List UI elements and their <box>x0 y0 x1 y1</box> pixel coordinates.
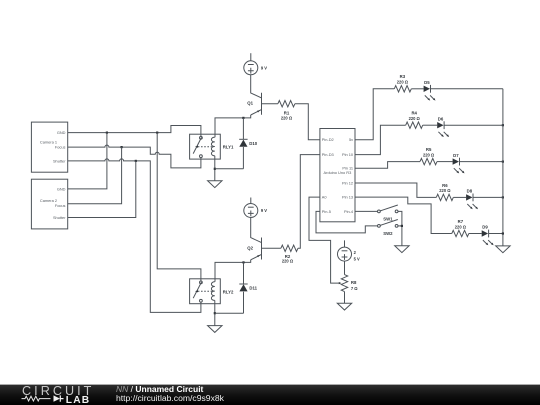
diode D10 <box>239 118 258 169</box>
relay RLY2 <box>190 279 234 304</box>
wire V2 top stub <box>344 240 346 247</box>
resistor R6 <box>436 183 453 201</box>
svg-text:9 V: 9 V <box>261 66 267 71</box>
node SW2/ground vertical <box>401 225 403 227</box>
voltage source V2 5V <box>338 247 361 261</box>
wire RLY1 coil bottom to ground <box>214 156 216 181</box>
svg-text:D5: D5 <box>424 80 430 85</box>
svg-text:D8: D8 <box>467 189 473 194</box>
camera 1 box <box>31 122 67 172</box>
logo diode <box>54 395 61 401</box>
voltage source V3 9V <box>244 204 268 218</box>
svg-text:Pin 12: Pin 12 <box>342 180 353 185</box>
wire LED bus <box>502 89 504 246</box>
wire GND net down to RLY2 switch top <box>157 133 201 281</box>
switch SW1 <box>378 205 399 221</box>
svg-text:http://circuitlab.com/c9s9x8k: http://circuitlab.com/c9s9x8k <box>116 393 225 403</box>
wire D9 to LED bus <box>489 233 503 235</box>
node Q2 emitter/D11 junction <box>242 261 244 263</box>
svg-text:GND: GND <box>57 186 66 191</box>
wire D8 to LED bus <box>473 196 503 198</box>
wire V2 to R8 <box>344 261 346 275</box>
transistor Q2 <box>247 238 261 260</box>
wire D7 to LED bus <box>460 161 503 163</box>
wire Pin 11 to R5 <box>355 162 420 169</box>
svg-text:220 Ω: 220 Ω <box>281 116 293 121</box>
LED D8 <box>466 189 478 210</box>
svg-text:220 Ω: 220 Ω <box>423 152 435 157</box>
svg-text:220 Ω: 220 Ω <box>397 80 409 85</box>
svg-text:R7: R7 <box>458 219 464 224</box>
wire SW2 right terminal to vertical <box>398 225 402 227</box>
wire R7 to D9 <box>469 233 482 235</box>
relay RLY1 <box>190 134 234 159</box>
svg-text:R8: R8 <box>351 280 357 285</box>
svg-text:Arduino Uno R3: Arduino Uno R3 <box>324 170 352 175</box>
wire V3 to Q2 collector <box>251 218 262 243</box>
wire camera1 Shutter to RLY2 switch bottom (with hops) <box>68 159 201 313</box>
svg-text:SW2: SW2 <box>383 231 393 236</box>
wire A0 to R8 wiper <box>309 197 339 283</box>
switch SW2 <box>378 220 399 236</box>
svg-text:5 V: 5 V <box>354 256 360 261</box>
wire V1 to Q1 collector <box>251 75 262 98</box>
svg-text:Pin 13: Pin 13 <box>342 195 353 200</box>
wire SW1 right terminal down to ground <box>398 211 402 245</box>
resistor R5 <box>420 147 437 165</box>
wire Pin-5 to SW2 <box>316 211 378 233</box>
potentiometer R8 <box>341 275 358 292</box>
svg-text:A0: A0 <box>322 195 328 200</box>
svg-text:5v: 5v <box>349 137 353 142</box>
wire R4 to D6 <box>423 124 438 126</box>
wire V1 top stub <box>250 53 252 61</box>
svg-text:Pin 10: Pin 10 <box>342 152 354 157</box>
svg-text:Q1: Q1 <box>247 101 253 106</box>
svg-text:R6: R6 <box>442 183 448 188</box>
svg-text:Pin-D3: Pin-D3 <box>322 152 334 157</box>
node bus/D8 <box>502 196 504 198</box>
node junction Shutter/camera2 <box>135 160 137 162</box>
node RLY1 coil/D10 junction <box>214 168 216 170</box>
ground under LED bus <box>496 246 510 253</box>
resistor R4 <box>406 111 423 129</box>
svg-text:Focus: Focus <box>55 203 66 208</box>
svg-text:Pin-5: Pin-5 <box>322 209 331 214</box>
wire Pin 13 to R7 <box>355 197 452 233</box>
svg-text:D7: D7 <box>453 153 459 158</box>
footer bar <box>0 385 540 405</box>
wire D5 to LED bus <box>431 88 503 90</box>
resistor R7 <box>452 219 469 237</box>
svg-text:D11: D11 <box>249 286 257 291</box>
svg-text:D6: D6 <box>438 116 444 121</box>
wire Pin 10 to R4 <box>355 125 406 154</box>
svg-text:220 Ω: 220 Ω <box>282 259 294 264</box>
logo resistor zigzag <box>22 396 51 401</box>
svg-text:D10: D10 <box>249 141 257 146</box>
transistor Q1 <box>247 93 261 115</box>
LED D6 <box>437 116 449 137</box>
svg-text:9 V: 9 V <box>261 208 267 213</box>
wire R6 to D8 <box>453 196 466 198</box>
wire R5 to D7 <box>437 161 453 163</box>
LED D5 <box>424 80 436 101</box>
wiper arrowhead <box>339 282 342 284</box>
wire Q1 base to R1 <box>262 103 278 105</box>
wire camera2 GND up to GND net <box>68 133 107 189</box>
resistor R2 <box>281 245 298 264</box>
node junction Focus/camera2 <box>121 146 123 148</box>
svg-text:220 Ω: 220 Ω <box>455 224 467 229</box>
wire R8 to ground <box>344 292 346 304</box>
svg-text:7 Ω: 7 Ω <box>351 286 358 291</box>
LED D7 <box>453 153 465 174</box>
wire camera1 Focus to RLY1 switch bottom (with hops) <box>68 145 201 168</box>
resistor R1 <box>278 101 295 121</box>
svg-text:LAB: LAB <box>66 395 91 405</box>
wire D6 to LED bus <box>444 124 503 126</box>
node Q1 emitter/D10 junction <box>242 117 244 119</box>
node bus/D6 <box>502 124 504 126</box>
node junction GND/relay2 branch <box>156 132 158 134</box>
node RLY2 coil/D11 junction <box>214 312 216 314</box>
wire V3 top stub <box>250 198 252 204</box>
wire junction to D11 bottom <box>215 312 244 314</box>
wire Q2 base to R2 <box>262 247 281 249</box>
svg-text:RLY2: RLY2 <box>223 289 234 294</box>
diode D11 <box>239 262 257 313</box>
wire R1 to Arduino Pin-D2 <box>295 104 320 140</box>
svg-text:Focus: Focus <box>55 145 66 150</box>
node junction GND/camera2 <box>106 132 108 134</box>
svg-text:Pin-D2: Pin-D2 <box>322 137 334 142</box>
wire 5v to R3 <box>355 89 394 140</box>
svg-text:R5: R5 <box>426 147 432 152</box>
wire R2 to Arduino Pin-D3 <box>298 155 320 249</box>
svg-text:Pin-4: Pin-4 <box>344 209 354 214</box>
svg-text:220 Ω: 220 Ω <box>409 116 421 121</box>
ground under switches <box>395 246 409 253</box>
wire R3 to D5 <box>411 88 423 90</box>
wire Pin-4 to SW1 <box>355 210 378 212</box>
svg-text:GND: GND <box>57 130 66 135</box>
ground under RLY2 <box>208 326 222 333</box>
wire Q2 emitter to RLY2 coil top <box>215 260 251 282</box>
svg-text:R3: R3 <box>400 74 406 79</box>
svg-text:Q2: Q2 <box>247 245 253 250</box>
svg-text:SW1: SW1 <box>383 216 393 221</box>
wire junction to D10 bottom <box>215 168 244 170</box>
svg-text:Shutter: Shutter <box>53 215 66 220</box>
node bus/D7 <box>502 161 504 163</box>
camera 2 box <box>31 179 67 229</box>
svg-text:D9: D9 <box>482 225 488 230</box>
wire Pin 12 to R6 <box>355 183 436 197</box>
wire camera2 Focus up to Focus net <box>68 147 122 204</box>
svg-text:220 Ω: 220 Ω <box>439 188 451 193</box>
voltage source V1 9V <box>244 61 268 75</box>
wire Q1 emitter to RLY1 coil top <box>215 115 251 137</box>
svg-text:R4: R4 <box>411 111 417 116</box>
Arduino Uno R3 box U1 <box>320 129 355 222</box>
svg-text:RLY1: RLY1 <box>223 145 234 150</box>
ground under RLY1 <box>208 181 222 188</box>
LED D9 <box>482 225 494 246</box>
wire camera2 Shutter up to Shutter net <box>68 161 136 218</box>
node bus/D9/ground <box>502 232 504 234</box>
svg-text:Shutter: Shutter <box>53 158 66 163</box>
resistor R3 <box>394 74 411 92</box>
ground under R8 <box>337 303 351 310</box>
wire RLY2 coil bottom to ground <box>214 300 216 325</box>
wire camera1 GND to RLY1 switch top <box>68 126 201 137</box>
